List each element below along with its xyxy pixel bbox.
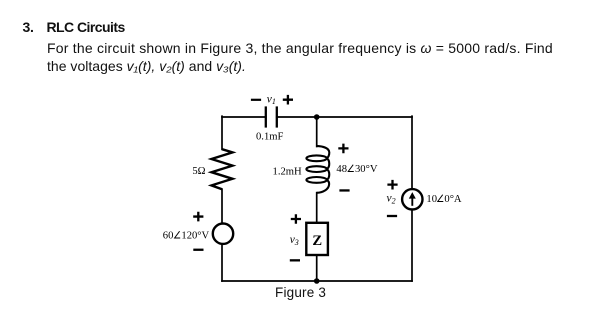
- wire left vertical upper: [221, 116, 223, 149]
- svg-text:0°A: 0°A: [444, 194, 462, 205]
- figure caption: [275, 285, 326, 300]
- minus sign of v2: [387, 215, 397, 217]
- svg-text:0.1mF: 0.1mF: [256, 132, 283, 143]
- wire right vertical upper: [411, 116, 413, 188]
- svg-text:48: 48: [336, 164, 347, 175]
- node junction top: [314, 114, 320, 120]
- svg-text:1.2mH: 1.2mH: [273, 166, 302, 177]
- svg-text:Z: Z: [312, 233, 322, 249]
- minus sign of v3: [290, 259, 300, 261]
- current source arrow: [409, 192, 416, 206]
- wire middle vertical upper: [316, 117, 318, 147]
- wire right vertical lower: [411, 210, 413, 281]
- voltage source value 60∠120°V: [163, 231, 210, 242]
- plus sign of v3: [291, 214, 301, 224]
- svg-text:v1: v1: [267, 93, 276, 106]
- svg-text:v3: v3: [290, 234, 299, 247]
- minus sign of v1: [251, 99, 261, 101]
- wire left vertical middle: [221, 189, 223, 223]
- current source value 10∠0°A: [426, 194, 462, 205]
- svg-text:60: 60: [163, 231, 174, 242]
- wire top-right horizontal: [277, 116, 412, 118]
- plus sign of v1: [283, 95, 293, 105]
- current source circle: [402, 189, 422, 209]
- plus sign of v2: [387, 180, 397, 190]
- resistor 5ohm zigzag: [212, 149, 233, 189]
- wire top-left horizontal: [222, 116, 266, 118]
- capacitor C1 plates: [266, 106, 277, 127]
- svg-text:120°V: 120°V: [181, 231, 209, 242]
- minus sign of 48∠30°V: [339, 189, 349, 191]
- wire middle below Z: [316, 255, 318, 281]
- wire bottom horizontal: [222, 280, 412, 282]
- heading RLC Circuits: [47, 19, 125, 35]
- impedance box Z: [306, 223, 328, 255]
- svg-text:5Ω: 5Ω: [192, 166, 205, 177]
- plus sign of 48∠30°V: [338, 144, 348, 154]
- problem number: [23, 19, 34, 35]
- svg-text:30°V: 30°V: [355, 164, 378, 175]
- voltage source circle: [213, 224, 233, 244]
- paragraph line 2: [47, 58, 246, 74]
- wire left vertical lower: [221, 244, 223, 281]
- plus sign of voltage source: [193, 212, 203, 222]
- svg-text:v2: v2: [387, 193, 396, 206]
- svg-text:10: 10: [426, 194, 437, 205]
- node junction bottom: [314, 278, 320, 284]
- wire middle between inductor and Z: [316, 193, 318, 223]
- inductor L coil: [306, 146, 329, 193]
- paragraph line 1: [47, 40, 553, 56]
- label 48∠30°V: [336, 164, 377, 175]
- minus sign of voltage source: [193, 249, 203, 251]
